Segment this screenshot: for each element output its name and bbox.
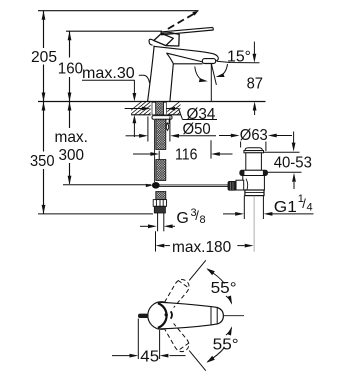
side stub (set screw) (138, 314, 149, 318)
G3/8 connector nut (153, 200, 166, 207)
drain center axis (253, 196, 255, 252)
lower arc arrowheads (207, 356, 215, 363)
spout inner edge (167, 53, 174, 64)
svg-text:8: 8 (200, 214, 206, 226)
drain lower body (243, 176, 265, 191)
dashed lever down position (rotated +55) (159, 316, 192, 354)
connector dark block (154, 206, 165, 213)
wire: popup rod level line (max300 end) (63, 184, 151, 186)
wire: top reference line 205 (38, 10, 199, 12)
15deg indication (195, 61, 260, 101)
arrow up max30 to deck bottom (133, 115, 137, 124)
right swivel arc (220, 64, 228, 76)
Ø63 dimension (219, 136, 292, 152)
svg-text:160: 160 (58, 60, 83, 77)
arrow down 160 at deck (68, 93, 72, 102)
mounting nut below deck (152, 116, 172, 120)
arrow up max300 below deck (68, 102, 72, 111)
wire: deck/counter top line (38, 101, 266, 103)
water stream vertical line (210, 64, 212, 102)
ball joint (152, 182, 160, 189)
handle raised position dashed (168, 14, 194, 29)
arrow up 350 below deck (42, 102, 46, 111)
15deg tilted line (211, 64, 216, 85)
faucet body right edge (170, 64, 173, 102)
svg-text:max.30: max.30 (82, 65, 135, 82)
handle base right face (162, 33, 180, 46)
faucet spout top/shoulder edge with nose (153, 46, 218, 61)
wire: 160/max300 dimension line x=69.5 (69, 31, 71, 57)
55deg arc lower (208, 348, 225, 362)
max.30 lower leg below deck (133, 123, 135, 137)
svg-text:max.180: max.180 (172, 239, 231, 256)
aerator (202, 59, 215, 64)
drain rod knob (knurled) (228, 181, 236, 190)
svg-text:G: G (176, 210, 188, 227)
svg-text:G1: G1 (274, 199, 297, 216)
drain side port (236, 180, 244, 190)
supply hose segments (cross-hatched) (156, 119, 166, 149)
right arc arrowhead (216, 73, 225, 77)
crescent mark on lever (171, 311, 172, 318)
upper arc arrowheads (207, 268, 215, 275)
arrow down 205 at deck (42, 93, 46, 102)
drain flange plate (244, 151, 264, 153)
drain tailpipe (244, 196, 263, 219)
svg-text:300: 300 (59, 147, 85, 164)
arrowheads for left dimension lines (42, 11, 72, 214)
rod double line to drain (159, 185, 229, 187)
svg-text:Ø63: Ø63 (240, 127, 268, 144)
svg-text:116: 116 (175, 147, 198, 164)
handle base diamond (154, 33, 174, 45)
horizontal centerline right of lever (224, 315, 244, 317)
logo dot on lever (165, 313, 168, 316)
lever cap lines (210, 307, 212, 325)
svg-text:87: 87 (247, 75, 263, 92)
55deg arc upper (208, 270, 225, 284)
max.30 down leg to deck (133, 80, 135, 94)
handle lever blade (161, 27, 213, 34)
threaded shank through deck (156, 102, 164, 115)
max.30 leader hook to faucet (139, 75, 150, 83)
drain neck (246, 153, 262, 171)
bold arc lever base (158, 303, 167, 328)
svg-text:55°: 55° (211, 280, 237, 297)
svg-text:Ø50: Ø50 (183, 121, 211, 138)
left arc arrowhead (199, 78, 208, 82)
aerator outlet line to label (217, 61, 260, 63)
wire: bottom reference line (350 end) (38, 213, 153, 215)
svg-text:15°: 15° (227, 49, 251, 66)
washer strips left/right of shank (152, 102, 156, 115)
radial line lower (189, 351, 206, 371)
svg-text:max.: max. (55, 129, 88, 146)
svg-text:4: 4 (307, 202, 313, 214)
arrow down max30 to deck top (133, 93, 137, 102)
G3/8 tube end (158, 213, 164, 231)
popup rod vertical beside hose (154, 120, 156, 182)
svg-text:40-53: 40-53 (274, 155, 312, 172)
svg-text:205: 205 (31, 49, 57, 66)
svg-text:350: 350 (30, 153, 55, 170)
wire: reference line 160 (66, 30, 162, 32)
mounting stud + drop (166, 119, 169, 123)
faucet body left edge (148, 46, 155, 102)
lever (top view) (158, 302, 224, 329)
87 dimension arrows (253, 42, 255, 115)
spout underside (173, 63, 202, 65)
arrow up 205 top (42, 11, 46, 20)
spout crease line (167, 53, 204, 62)
drain bottom flange (245, 190, 264, 196)
arrow down 350 bottom (42, 205, 46, 214)
drain flange dome (245, 148, 263, 151)
body circle (top view) (148, 302, 176, 330)
drain locknut (240, 170, 268, 175)
wire: deck bottom line (131, 114, 151, 116)
handle base left bump (149, 39, 154, 45)
wire: 205/350 dimension line x=43.5 (43, 11, 45, 48)
arrow up 160 top (68, 31, 72, 40)
left swivel arc (195, 67, 203, 81)
radial line upper (189, 260, 206, 280)
svg-text:55°: 55° (213, 337, 239, 354)
svg-text:45: 45 (140, 349, 159, 366)
drain body interior curve (246, 179, 248, 192)
arrow tip of dashed raised handle (192, 11, 198, 16)
arrow down max300 bottom (68, 176, 72, 185)
